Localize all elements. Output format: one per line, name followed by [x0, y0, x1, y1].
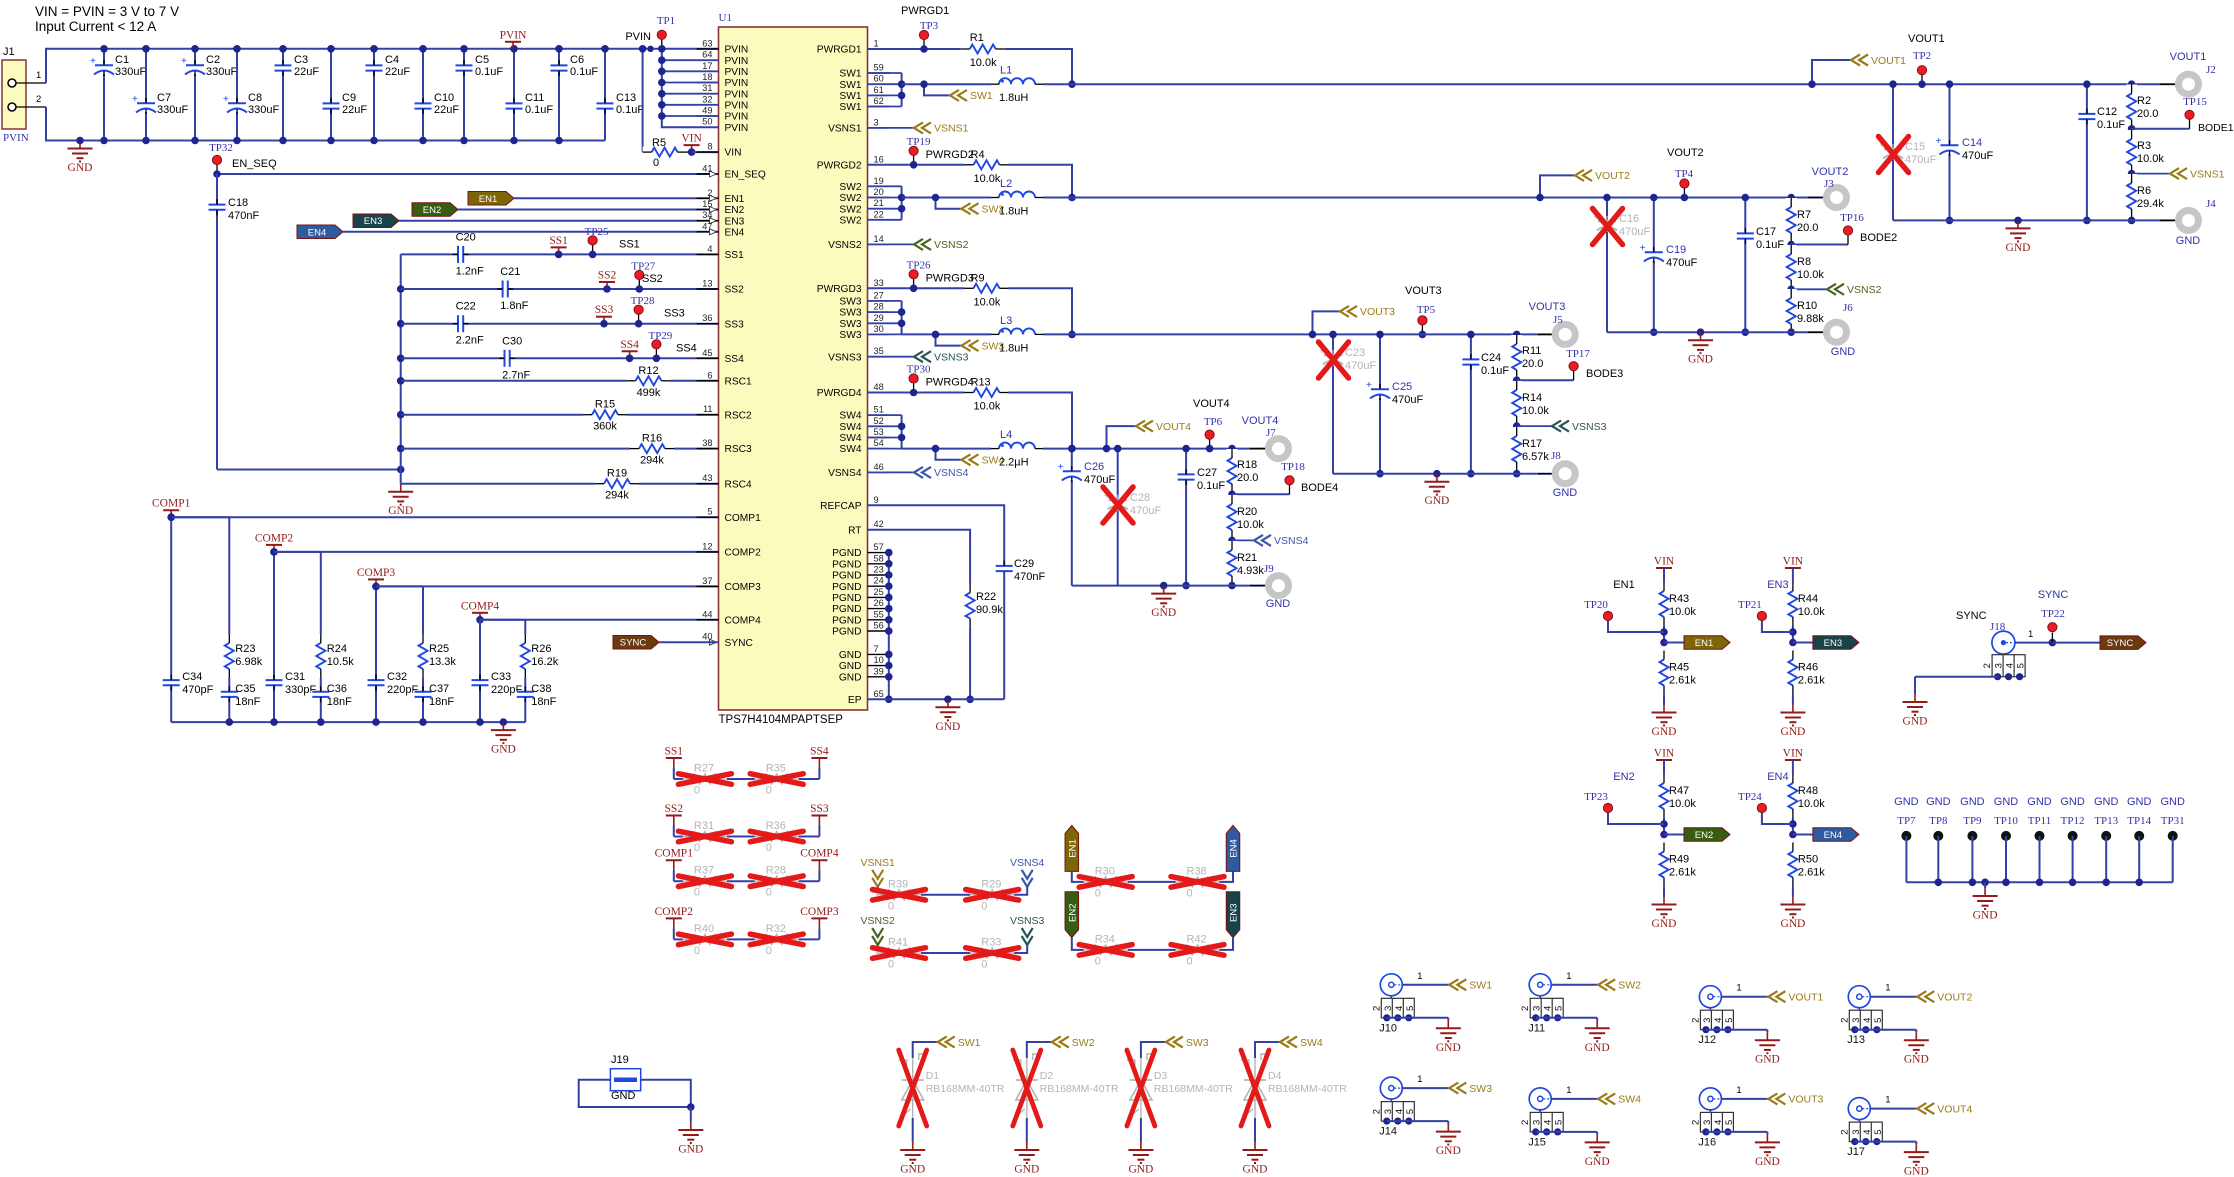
svg-text:3: 3: [1702, 1120, 1713, 1125]
resistor R34 not populated: [1079, 933, 1132, 967]
jack J6: [1808, 302, 1855, 358]
svg-text:R3: R3: [2137, 140, 2151, 152]
svg-text:R5: R5: [652, 137, 666, 149]
svg-text:TP11: TP11: [2028, 815, 2051, 827]
svg-text:VSNS1: VSNS1: [828, 124, 862, 135]
svg-text:PVIN: PVIN: [3, 132, 29, 144]
resistor R8: [1786, 245, 1825, 290]
svg-text:PVIN: PVIN: [725, 78, 749, 89]
svg-text:GND: GND: [2176, 235, 2201, 247]
svg-text:470nF: 470nF: [228, 210, 259, 222]
svg-text:60: 60: [874, 74, 884, 84]
U1 pin 65 EP: [848, 689, 890, 706]
svg-text:5: 5: [1873, 1018, 1884, 1023]
svg-text:1: 1: [1417, 971, 1422, 982]
wire VOUT3 line: [1043, 333, 1555, 335]
capacitor C17: [1735, 194, 1784, 336]
svg-text:R18: R18: [1237, 459, 1257, 471]
svg-text:VSNS2: VSNS2: [828, 240, 862, 251]
svg-text:GND: GND: [1831, 346, 1856, 358]
svg-text:52: 52: [874, 416, 884, 426]
wire EP rail: [868, 696, 1005, 704]
svg-text:TP6: TP6: [1204, 416, 1223, 428]
resistor R25: [418, 634, 457, 678]
svg-text:REFCAP: REFCAP: [820, 501, 862, 512]
U1 pin 8 VIN: [697, 142, 742, 159]
svg-text:6.57k: 6.57k: [1522, 451, 1549, 463]
U1 pin 6 RSC1: [697, 370, 753, 387]
U1 pin 52 SW4: [839, 416, 889, 433]
svg-text:R34: R34: [1095, 933, 1115, 945]
wire jumper row R37: [683, 880, 798, 882]
svg-text:GND: GND: [2160, 796, 2185, 808]
svg-text:R43: R43: [1669, 593, 1689, 605]
svg-text:+: +: [1936, 136, 1942, 147]
svg-text:470uF: 470uF: [1084, 474, 1115, 486]
svg-text:4: 4: [1394, 1109, 1405, 1114]
svg-text:SS3: SS3: [725, 319, 745, 330]
svg-text:TP9: TP9: [1963, 815, 1982, 827]
svg-text:10.0k: 10.0k: [970, 57, 997, 69]
U1 pin 41 EN_SEQ: [697, 164, 766, 181]
resistor R11: [1511, 331, 1543, 381]
svg-text:13.3k: 13.3k: [429, 656, 456, 668]
svg-text:VOUT1: VOUT1: [2170, 51, 2207, 63]
U1 pin 5 COMP1: [697, 507, 762, 524]
svg-text:GND: GND: [1688, 354, 1713, 366]
capacitor C20: [401, 231, 719, 277]
svg-text:SW2: SW2: [839, 182, 861, 193]
svg-text:PGND: PGND: [832, 615, 861, 626]
svg-text:GND: GND: [1994, 796, 2019, 808]
wire VOUT4 line: [1043, 448, 1268, 450]
svg-text:2: 2: [1690, 1120, 1701, 1125]
svg-text:D1: D1: [926, 1070, 940, 1082]
svg-text:GND: GND: [1128, 1164, 1153, 1176]
resistor R32 not populated: [750, 923, 803, 957]
svg-text:SS1: SS1: [725, 250, 745, 261]
svg-text:R12: R12: [638, 365, 658, 377]
net label SW1 diode: [913, 1037, 981, 1059]
svg-text:PVIN: PVIN: [725, 100, 749, 111]
svg-text:SW4: SW4: [839, 433, 861, 444]
svg-text:1: 1: [1566, 1085, 1571, 1096]
svg-text:5: 5: [1554, 1006, 1565, 1011]
svg-text:C23: C23: [1345, 347, 1365, 359]
svg-text:10.0k: 10.0k: [1237, 519, 1264, 531]
capacitor C14: [1936, 80, 1994, 224]
wire jumper row R31: [683, 836, 798, 838]
svg-text:SYNC: SYNC: [725, 638, 753, 649]
power port COMP3 jumper: [798, 906, 839, 940]
svg-text:14: 14: [874, 234, 884, 244]
svg-text:VOUT2: VOUT2: [1595, 170, 1630, 182]
svg-text:33: 33: [874, 278, 884, 288]
svg-text:VIN: VIN: [1783, 556, 1804, 568]
svg-text:SS2: SS2: [665, 803, 684, 815]
svg-text:VOUT2: VOUT2: [1667, 147, 1704, 159]
U1 pin 16 PWRGD2: [817, 154, 890, 171]
U1 pin 50 PVIN: [697, 117, 749, 134]
resistor R27 not populated: [678, 763, 731, 797]
svg-text:TP24: TP24: [1738, 791, 1762, 803]
capacitor C21: [401, 266, 719, 312]
net label VSNS1 jumper: [860, 857, 895, 895]
svg-text:EN1: EN1: [725, 194, 745, 205]
svg-text:4.93k: 4.93k: [1237, 565, 1264, 577]
net flag SYNC at pin 40: [613, 635, 719, 649]
svg-text:31: 31: [702, 83, 712, 93]
test point TP16: [1787, 212, 1897, 248]
svg-text:0: 0: [981, 900, 987, 912]
U1 pin 29 SW3: [839, 313, 889, 330]
svg-text:VSNS4: VSNS4: [1010, 857, 1045, 869]
svg-text:4: 4: [1713, 1018, 1724, 1023]
svg-text:EN1: EN1: [1067, 839, 1078, 857]
svg-text:43: 43: [702, 473, 712, 483]
power port COMP2: [255, 532, 294, 555]
svg-text:PGND: PGND: [832, 582, 861, 593]
svg-text:330uF: 330uF: [157, 104, 188, 116]
svg-text:18nF: 18nF: [531, 696, 556, 708]
svg-text:GND: GND: [1652, 918, 1677, 930]
test point TP3: [919, 20, 938, 53]
svg-text:5: 5: [1873, 1129, 1884, 1134]
svg-text:470uF: 470uF: [1392, 394, 1423, 406]
capacitor C34: [161, 671, 213, 696]
svg-text:J10: J10: [1379, 1022, 1397, 1034]
svg-text:470uF: 470uF: [1130, 505, 1161, 517]
svg-text:18nF: 18nF: [235, 696, 260, 708]
test point TP32: [209, 142, 233, 174]
U1 pin 45 SS4: [697, 348, 745, 365]
svg-text:TP19: TP19: [907, 136, 931, 148]
svg-text:J7: J7: [1266, 427, 1276, 439]
svg-text:R31: R31: [694, 820, 714, 832]
svg-text:330uF: 330uF: [248, 104, 279, 116]
svg-text:2.7nF: 2.7nF: [502, 369, 530, 381]
svg-text:TP32: TP32: [209, 142, 233, 154]
svg-text:TP25: TP25: [585, 226, 609, 238]
svg-text:5: 5: [1405, 1006, 1416, 1011]
svg-text:GND: GND: [2027, 796, 2052, 808]
wire PWRGD1: [868, 5, 961, 49]
ground at input: [68, 137, 93, 174]
svg-text:+: +: [1640, 243, 1646, 254]
svg-text:EN4: EN4: [308, 227, 326, 238]
svg-text:63: 63: [702, 39, 712, 49]
svg-text:R28: R28: [766, 865, 786, 877]
svg-text:COMP1: COMP1: [655, 848, 694, 860]
capacitor C22: [401, 301, 719, 347]
svg-text:VOUT4: VOUT4: [1193, 398, 1230, 410]
svg-text:EN3: EN3: [1824, 638, 1842, 649]
test point TP15: [2128, 96, 2234, 134]
svg-text:3: 3: [874, 117, 879, 127]
svg-text:360k: 360k: [593, 421, 617, 433]
svg-text:C18: C18: [228, 197, 248, 209]
svg-text:5: 5: [1724, 1120, 1735, 1125]
inductor L1: [991, 65, 1043, 105]
svg-text:2: 2: [36, 94, 41, 105]
resistor R39 not populated: [873, 878, 926, 912]
svg-text:TP1: TP1: [657, 15, 675, 27]
power port COMP1 jumper: [655, 848, 694, 882]
jack J9: [1250, 563, 1290, 610]
svg-text:SW2: SW2: [839, 193, 861, 204]
svg-text:EN1: EN1: [1613, 579, 1634, 591]
jack J2: [2160, 51, 2216, 94]
U1 pin 61 SW1: [839, 85, 889, 102]
note text: [35, 4, 179, 34]
svg-text:5: 5: [1724, 1018, 1735, 1023]
svg-text:SW3: SW3: [839, 319, 861, 330]
net label VOUT2 at J13: [1870, 983, 1972, 1004]
svg-text:4: 4: [1713, 1120, 1724, 1125]
net label VSNS3 at pin: [868, 351, 969, 363]
svg-text:39: 39: [874, 666, 884, 676]
svg-text:TPS7H4104MPAPTSEP: TPS7H4104MPAPTSEP: [719, 714, 844, 726]
svg-text:C7: C7: [157, 92, 171, 104]
svg-text:COMP2: COMP2: [255, 532, 294, 544]
net label VOUT3 at J16: [1721, 1085, 1823, 1106]
svg-text:10.0k: 10.0k: [1798, 606, 1825, 618]
svg-text:J19: J19: [611, 1054, 629, 1066]
svg-text:10.0k: 10.0k: [1798, 798, 1825, 810]
svg-text:SW1: SW1: [839, 102, 861, 113]
svg-text:5: 5: [1554, 1120, 1565, 1125]
svg-text:16.2k: 16.2k: [531, 656, 558, 668]
svg-text:44: 44: [702, 609, 712, 619]
svg-text:C36: C36: [327, 683, 347, 695]
capacitor C36: [311, 683, 352, 708]
svg-text:18nF: 18nF: [327, 696, 352, 708]
wire jumper row R41: [886, 952, 1018, 954]
wire COMP3: [376, 585, 719, 587]
svg-text:VOUT3: VOUT3: [1529, 301, 1566, 313]
test point TP25: [585, 226, 640, 258]
PGND bus: [885, 549, 893, 703]
svg-text:VOUT4: VOUT4: [1156, 421, 1191, 433]
resistor R14: [1511, 380, 1549, 426]
capacitor C35: [219, 683, 260, 708]
svg-text:294k: 294k: [640, 455, 664, 467]
svg-text:EP: EP: [848, 695, 862, 706]
svg-text:2: 2: [1520, 1006, 1531, 1011]
capacitor C3: [273, 45, 319, 144]
svg-text:1.8uH: 1.8uH: [999, 342, 1028, 354]
connector J1: [2, 46, 46, 144]
wire VOUT1 line: [1043, 83, 2178, 85]
svg-text:R33: R33: [981, 937, 1001, 949]
svg-text:VSNS2: VSNS2: [934, 239, 969, 251]
svg-text:VSNS3: VSNS3: [828, 352, 862, 363]
svg-text:C33: C33: [491, 671, 511, 683]
wire jumper row R30: [1080, 881, 1224, 883]
svg-text:SS4: SS4: [676, 342, 697, 354]
svg-text:5: 5: [1405, 1109, 1416, 1114]
net flag EN3: [353, 214, 719, 228]
svg-text:EN4: EN4: [1767, 771, 1788, 783]
svg-text:R21: R21: [1237, 552, 1257, 564]
svg-text:RSC3: RSC3: [725, 444, 753, 455]
svg-text:12: 12: [702, 541, 712, 551]
svg-text:56: 56: [874, 621, 884, 631]
svg-text:R41: R41: [888, 937, 908, 949]
svg-text:5: 5: [2016, 663, 2027, 668]
wire VOUT1 gnd rail: [1893, 219, 2178, 221]
svg-text:19: 19: [874, 176, 884, 186]
U1 pin 11 RSC2: [697, 404, 753, 421]
power port COMP2 jumper: [655, 906, 694, 940]
svg-text:2: 2: [1371, 1006, 1382, 1011]
svg-text:PVIN: PVIN: [725, 56, 749, 67]
svg-text:R36: R36: [766, 820, 786, 832]
svg-text:0: 0: [766, 945, 772, 957]
svg-text:PVIN: PVIN: [725, 67, 749, 78]
svg-text:EN2: EN2: [1613, 771, 1634, 783]
U1 pin 31 PVIN: [697, 83, 749, 100]
ground TP rail: [1973, 882, 1998, 921]
svg-text:EN_SEQ: EN_SEQ: [232, 158, 277, 170]
U1 pin 51 SW4: [839, 405, 889, 422]
svg-text:GND: GND: [1755, 1156, 1780, 1168]
U1 pin 43 RSC4: [697, 473, 753, 490]
power port SS4 jumper: [798, 746, 829, 780]
resistor R41 not populated: [873, 937, 926, 971]
ground COMP rail: [491, 718, 516, 755]
svg-text:C10: C10: [434, 92, 454, 104]
svg-text:20: 20: [874, 187, 884, 197]
resistor R18: [1227, 445, 1259, 494]
svg-text:0: 0: [694, 785, 700, 797]
svg-text:GND: GND: [1585, 1156, 1610, 1168]
svg-text:C25: C25: [1392, 381, 1412, 393]
capacitor C31: [264, 671, 316, 696]
svg-text:10.5k: 10.5k: [327, 656, 354, 668]
net label VSNS2 at pin: [868, 239, 969, 251]
svg-text:TP27: TP27: [631, 261, 655, 273]
test point TP2: [1908, 33, 1945, 88]
connector J16: [1690, 1088, 1780, 1168]
svg-text:46: 46: [874, 462, 884, 472]
svg-text:J5: J5: [1553, 314, 1563, 326]
wire REFCAP: [868, 505, 1005, 566]
svg-text:R38: R38: [1187, 865, 1207, 877]
resistor R36 not populated: [750, 820, 803, 854]
power port SS4: [620, 339, 639, 362]
svg-text:GND: GND: [1780, 918, 1805, 930]
resistor R1: [961, 32, 1076, 88]
svg-text:20.0: 20.0: [1522, 358, 1543, 370]
svg-text:R9: R9: [971, 272, 985, 284]
wire SW2 bus: [868, 186, 992, 220]
resistor R26: [520, 634, 559, 678]
svg-text:13: 13: [702, 279, 712, 289]
connector J18 shield pins: [1915, 654, 2027, 694]
resistor R10: [1786, 289, 1825, 336]
svg-text:0: 0: [1187, 887, 1193, 899]
svg-text:10: 10: [874, 655, 884, 665]
svg-text:1.2nF: 1.2nF: [456, 265, 484, 277]
resistor divider R47 R49 EN2: [1584, 748, 1730, 931]
ground VOUT1: [2006, 217, 2031, 254]
svg-text:GND: GND: [1436, 1145, 1461, 1157]
test point TP4: [1667, 147, 1704, 201]
svg-text:45: 45: [702, 348, 712, 358]
svg-text:22: 22: [874, 209, 884, 219]
wire PVIN top rail: [46, 49, 719, 83]
svg-text:VOUT1: VOUT1: [1871, 55, 1906, 67]
ground VOUT4: [1151, 582, 1176, 619]
test point TP6: [1193, 398, 1230, 452]
net flag EN2: [412, 203, 719, 217]
svg-text:SW4: SW4: [1300, 1037, 1323, 1049]
svg-text:0.1uF: 0.1uF: [1197, 480, 1225, 492]
svg-text:R50: R50: [1798, 854, 1818, 866]
net label SW3: [932, 331, 1005, 353]
svg-text:TP22: TP22: [2041, 608, 2065, 620]
connector J12: [1690, 986, 1780, 1066]
svg-text:36: 36: [702, 313, 712, 323]
wire COMP1 branch: [167, 513, 229, 722]
svg-text:470uF: 470uF: [1666, 257, 1697, 269]
inductor L2: [991, 178, 1043, 218]
svg-text:GND: GND: [935, 721, 960, 733]
svg-text:VOUT3: VOUT3: [1405, 285, 1442, 297]
svg-text:470pF: 470pF: [182, 684, 213, 696]
wire COMP2: [274, 551, 719, 553]
svg-text:330uF: 330uF: [206, 66, 237, 78]
svg-text:VIN: VIN: [1783, 748, 1804, 760]
svg-text:3: 3: [1532, 1120, 1543, 1125]
svg-text:51: 51: [874, 405, 884, 415]
capacitor C1: [90, 45, 146, 144]
resistor R35 not populated: [750, 763, 803, 797]
svg-text:PWRGD3: PWRGD3: [817, 284, 862, 295]
net label VSNS1: [2128, 168, 2225, 180]
resistor R29 not populated: [966, 878, 1019, 912]
ground on SS bus: [388, 484, 413, 518]
svg-text:0: 0: [694, 842, 700, 854]
svg-text:SS2: SS2: [642, 273, 663, 285]
svg-text:BODE4: BODE4: [1301, 482, 1338, 494]
svg-text:VOUT4: VOUT4: [1242, 415, 1279, 427]
svg-text:GND: GND: [839, 650, 862, 661]
capacitor C2: [181, 45, 237, 144]
svg-text:499k: 499k: [637, 387, 661, 399]
svg-text:SYNC: SYNC: [1956, 610, 1987, 622]
ground EP: [935, 699, 960, 733]
jack J3: [1808, 166, 1848, 208]
svg-text:BODE2: BODE2: [1860, 232, 1897, 244]
capacitor C7: [132, 45, 188, 144]
svg-text:GND: GND: [2006, 242, 2031, 254]
svg-text:37: 37: [702, 576, 712, 586]
svg-text:VSNS1: VSNS1: [934, 123, 969, 135]
test point TP18: [1228, 461, 1338, 498]
U1 pin 49 PVIN: [697, 106, 749, 123]
svg-text:PWRGD2: PWRGD2: [926, 149, 974, 161]
svg-text:C24: C24: [1481, 352, 1501, 364]
svg-text:28: 28: [874, 302, 884, 312]
U1 pin 35 VSNS3: [828, 346, 889, 363]
svg-text:PVIN: PVIN: [625, 31, 651, 43]
U1 pin 12 COMP2: [697, 541, 762, 558]
resistor R7: [1786, 194, 1819, 245]
svg-text:TP16: TP16: [1840, 212, 1864, 224]
svg-text:2.61k: 2.61k: [1798, 675, 1825, 687]
